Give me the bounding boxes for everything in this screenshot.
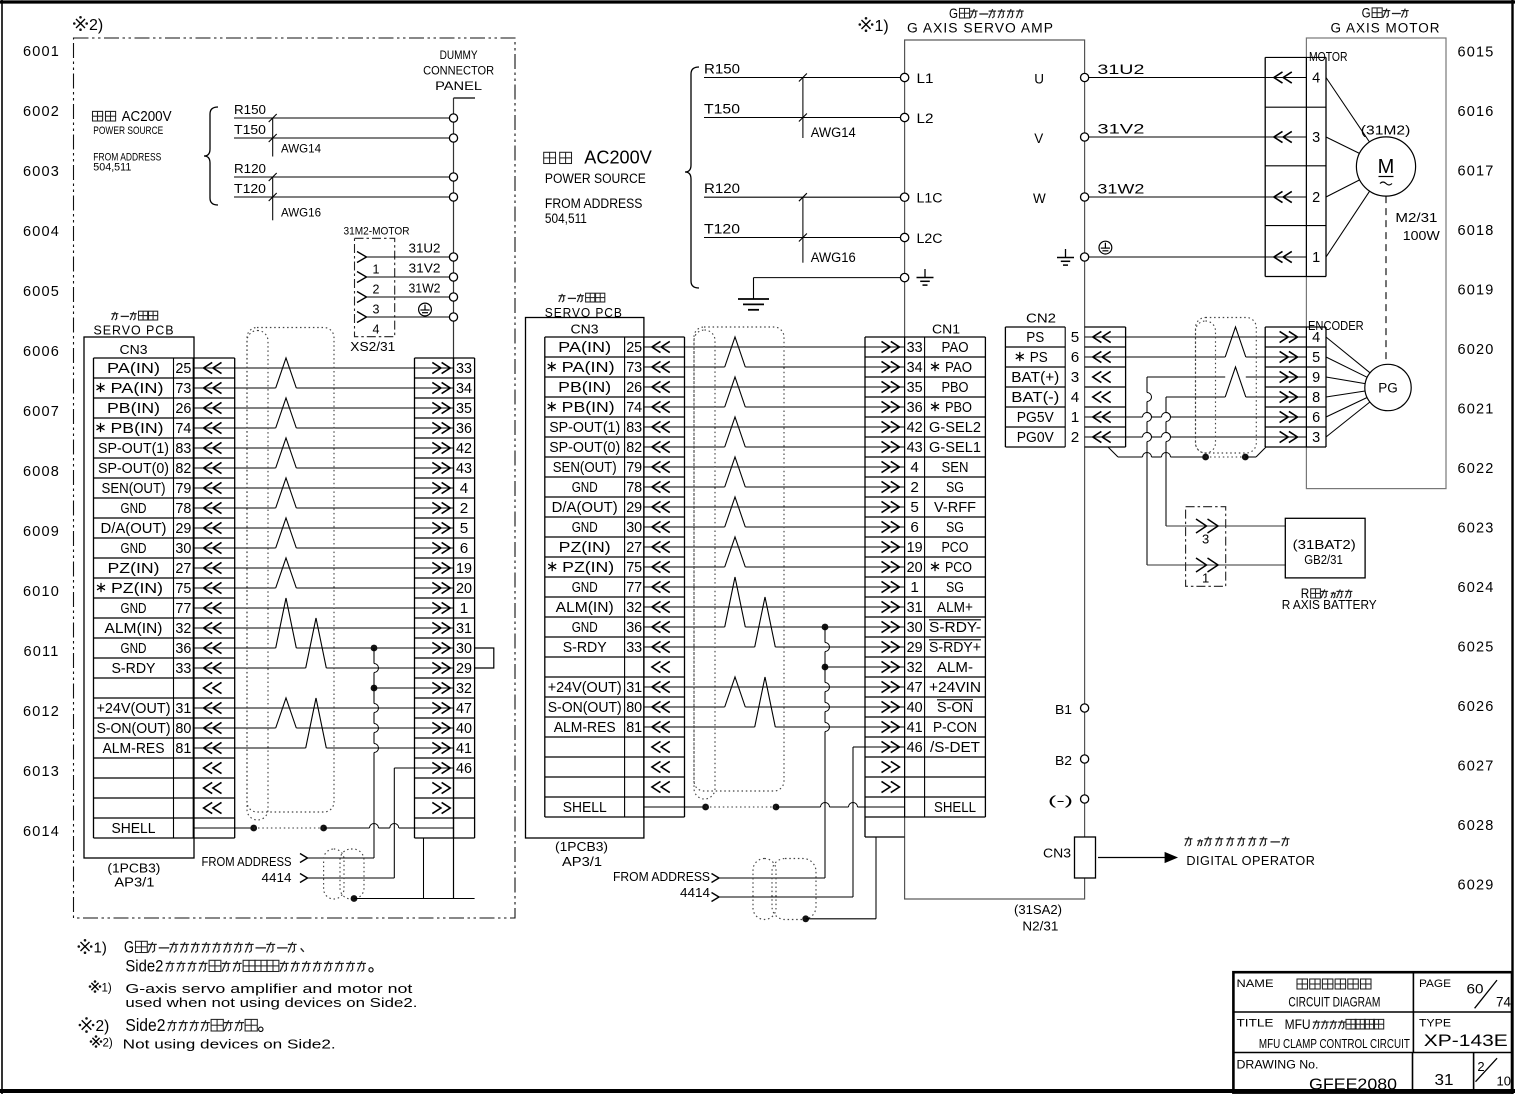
- svg-text:19: 19: [456, 561, 472, 577]
- svg-text:79: 79: [175, 481, 191, 497]
- wire row 3: [235, 407, 415, 409]
- wire row 12 with twisted-pair mark: [235, 587, 276, 589]
- svg-text:81: 81: [175, 741, 191, 757]
- svg-text:4: 4: [1312, 330, 1320, 346]
- svg-text:ALM-RES: ALM-RES: [554, 720, 616, 736]
- svg-text:5: 5: [460, 521, 469, 537]
- servo PCB board outline (left): [84, 337, 194, 858]
- svg-text:DIGITAL OPERATOR: DIGITAL OPERATOR: [1186, 853, 1315, 868]
- svg-text:1: 1: [1312, 250, 1320, 266]
- svg-text:6008: 6008: [23, 464, 60, 480]
- svg-text:6022: 6022: [1457, 461, 1494, 477]
- svg-text:60: 60: [1467, 982, 1484, 997]
- svg-text:6028: 6028: [1457, 818, 1494, 834]
- vertical junction wire A to FROM ADDRESS 4414: [824, 627, 826, 643]
- svg-text:D/A(OUT): D/A(OUT): [552, 500, 618, 516]
- svg-text:PCO: PCO: [945, 560, 972, 576]
- svg-text:PBO: PBO: [945, 400, 972, 416]
- svg-text:2: 2: [1071, 430, 1080, 446]
- svg-text:AP3/1: AP3/1: [562, 855, 602, 869]
- XS2/31 pin 3 wire to panel: [357, 292, 367, 303]
- wire row 8 with twisted-pair mark: [235, 507, 276, 509]
- svg-text:31W2: 31W2: [1097, 182, 1144, 197]
- svg-text:XS2/31: XS2/31: [350, 340, 395, 354]
- svg-text:CIRCUIT DIAGRAM: CIRCUIT DIAGRAM: [1288, 994, 1380, 1010]
- svg-text:82: 82: [626, 440, 642, 456]
- svg-text:PAO: PAO: [942, 340, 969, 356]
- svg-text:36: 36: [626, 620, 642, 636]
- svg-text:+24VIN: +24VIN: [929, 680, 981, 696]
- svg-text:GND: GND: [121, 541, 147, 557]
- svg-text:PB(IN): PB(IN): [562, 400, 615, 416]
- wire row 18 (+24V): [685, 686, 866, 688]
- svg-text:G: G: [124, 938, 134, 957]
- svg-text:19: 19: [907, 540, 923, 556]
- svg-text:AWG14: AWG14: [811, 125, 856, 140]
- svg-text:PB(IN): PB(IN): [558, 380, 611, 396]
- svg-text:R120: R120: [234, 162, 266, 176]
- XS2/31 pin 2 wire to panel: [357, 272, 367, 283]
- svg-text:26: 26: [626, 380, 642, 396]
- svg-text:46: 46: [907, 740, 923, 756]
- wire row 9: [685, 506, 866, 508]
- wire row 7: [685, 466, 866, 468]
- svg-text:504,511: 504,511: [545, 211, 587, 226]
- svg-text:6007: 6007: [23, 404, 60, 420]
- wire BAT(+) riser to encoder 9 with twisted mark: [1147, 376, 1225, 378]
- svg-text:PZ(IN): PZ(IN): [111, 581, 163, 597]
- svg-text:31: 31: [456, 621, 472, 637]
- svg-text:G-SEL1: G-SEL1: [929, 440, 981, 456]
- shield ovals around FROM ADDRESS wires (middle): [753, 859, 776, 920]
- svg-text:10: 10: [1497, 1073, 1512, 1088]
- wire BAT(-) riser to encoder 8: [1166, 396, 1225, 398]
- wire row 21 (/S-DET) from vertical: [393, 768, 395, 878]
- svg-text:SG: SG: [946, 520, 964, 536]
- svg-text:S-RDY-: S-RDY-: [929, 620, 981, 636]
- svg-text:83: 83: [626, 420, 642, 436]
- wire gauge AWG16 (middle): [802, 197, 804, 263]
- battery box (31BAT2) GB2/31: [1285, 518, 1365, 578]
- brace for power source (left): [204, 107, 218, 205]
- svg-text:PA(IN): PA(IN): [111, 381, 164, 397]
- svg-text:GFEE2080: GFEE2080: [1309, 1077, 1397, 1094]
- svg-text:SERVO PCB: SERVO PCB: [94, 323, 175, 338]
- svg-text:1: 1: [373, 263, 380, 277]
- wire row 8 with twisted-pair mark: [685, 486, 725, 488]
- wire row 4 with twisted-pair mark: [235, 427, 276, 429]
- svg-text:AWG16: AWG16: [281, 206, 321, 220]
- dummy panel terminals for power wires: [449, 114, 457, 122]
- svg-text:29: 29: [626, 500, 642, 516]
- svg-text:ALM-RES: ALM-RES: [103, 741, 165, 757]
- svg-text:6002: 6002: [23, 104, 60, 120]
- svg-text:3: 3: [1312, 430, 1320, 446]
- wire row 2 with twisted-pair mark: [235, 387, 276, 389]
- svg-text:9: 9: [1312, 370, 1320, 386]
- wire row 11: [685, 546, 866, 548]
- cable shield (dotted) around twisted pairs: [247, 328, 334, 813]
- svg-text:31M2-MOTOR: 31M2-MOTOR: [344, 226, 410, 238]
- svg-text:6012: 6012: [23, 704, 60, 720]
- svg-text:AWG14: AWG14: [281, 142, 321, 156]
- svg-text:36: 36: [907, 400, 923, 416]
- svg-text:PANEL: PANEL: [435, 79, 482, 93]
- svg-text:77: 77: [626, 580, 642, 596]
- battery connector pin 3 wire: [1166, 525, 1285, 527]
- wire row 10 with twisted-pair mark: [685, 526, 725, 528]
- svg-text:6024: 6024: [1457, 580, 1494, 596]
- svg-text:S-RDY: S-RDY: [563, 640, 607, 656]
- svg-text:PG0V: PG0V: [1017, 430, 1054, 446]
- svg-text:35: 35: [456, 401, 472, 417]
- svg-text:PA(IN): PA(IN): [107, 361, 160, 377]
- svg-text:+24V(OUT): +24V(OUT): [548, 680, 622, 696]
- svg-text:PS: PS: [1026, 330, 1044, 346]
- svg-text:6: 6: [910, 520, 919, 536]
- shield ovals around FROM ADDRESS wires (left): [324, 849, 344, 899]
- svg-text:Side2: Side2: [125, 1016, 165, 1035]
- wire row 5: [685, 426, 866, 428]
- svg-text:82: 82: [175, 461, 191, 477]
- svg-text:ALM+: ALM+: [937, 600, 973, 616]
- svg-text:29: 29: [907, 640, 923, 656]
- svg-text:4: 4: [460, 481, 469, 497]
- svg-text:G-SEL2: G-SEL2: [929, 420, 981, 436]
- svg-text:PZ(IN): PZ(IN): [562, 560, 614, 576]
- svg-text:25: 25: [626, 340, 642, 356]
- svg-text:73: 73: [175, 381, 191, 397]
- svg-text:2: 2: [373, 283, 380, 297]
- dashed shaft link motor to encoder: [1385, 196, 1387, 364]
- svg-text:G AXIS MOTOR: G AXIS MOTOR: [1331, 21, 1441, 36]
- svg-text:D/A(OUT): D/A(OUT): [101, 521, 167, 537]
- svg-text:PZ(IN): PZ(IN): [559, 540, 611, 556]
- svg-text:V-RFF: V-RFF: [934, 500, 976, 516]
- dummy connector panel bus line: [454, 97, 476, 99]
- svg-text:GND: GND: [572, 520, 598, 536]
- svg-text:79: 79: [626, 460, 642, 476]
- amp ground terminal wire to motor: [1065, 249, 1067, 258]
- svg-text:SG: SG: [946, 580, 964, 596]
- middle servo PCB CN3 pin table: [545, 336, 685, 338]
- svg-text:U: U: [1034, 72, 1044, 87]
- vertical junction wire A to FROM ADDRESS 4414: [373, 648, 375, 664]
- ground wire to amp ground terminal: [754, 277, 901, 279]
- wire row 20 (ALM-RES) with twisted mark: [235, 747, 306, 749]
- svg-text:SP-OUT(0): SP-OUT(0): [98, 461, 169, 477]
- svg-text:1): 1): [102, 983, 112, 995]
- svg-text:40: 40: [456, 721, 472, 737]
- svg-text:1): 1): [94, 940, 107, 957]
- shell wire row 24: [685, 806, 706, 808]
- svg-text:6004: 6004: [23, 224, 60, 240]
- svg-text:(1PCB3): (1PCB3): [107, 862, 160, 876]
- svg-text:80: 80: [175, 721, 191, 737]
- svg-text:GND: GND: [572, 580, 598, 596]
- svg-text:S-RDY: S-RDY: [112, 661, 156, 677]
- svg-text:NAME: NAME: [1237, 978, 1274, 990]
- svg-text:FROM ADDRESS: FROM ADDRESS: [613, 870, 710, 884]
- svg-text:34: 34: [907, 360, 923, 376]
- svg-text:4: 4: [1071, 390, 1080, 406]
- chassis ground mark at amp terminal: [924, 269, 926, 278]
- svg-text:FROM ADDRESS: FROM ADDRESS: [545, 196, 643, 211]
- svg-text:SP-OUT(1): SP-OUT(1): [98, 441, 169, 457]
- note mark *1) for servo amp: [862, 20, 871, 29]
- svg-text:GB2/31: GB2/31: [1304, 552, 1343, 567]
- svg-text:27: 27: [175, 561, 191, 577]
- svg-text:TYPE: TYPE: [1419, 1018, 1451, 1030]
- wire gauge AWG14 (middle): [802, 78, 804, 139]
- svg-text:CN3: CN3: [120, 342, 148, 357]
- svg-text:ALM-: ALM-: [937, 660, 973, 676]
- wire row 18 (+24V): [235, 707, 415, 709]
- svg-text:R150: R150: [234, 103, 266, 117]
- svg-text:PCO: PCO: [942, 540, 969, 556]
- battery connector pin 1 wire: [1147, 564, 1285, 566]
- svg-text:36: 36: [175, 641, 191, 657]
- svg-text:SHELL: SHELL: [563, 800, 607, 816]
- svg-text:L2: L2: [917, 111, 934, 126]
- svg-text:S-ON: S-ON: [937, 700, 973, 716]
- svg-text:2: 2: [1477, 1059, 1484, 1074]
- svg-text:PAGE: PAGE: [1419, 978, 1451, 990]
- svg-text:R150: R150: [704, 62, 740, 77]
- svg-text:80: 80: [626, 700, 642, 716]
- svg-text:81: 81: [626, 720, 642, 736]
- svg-text:6: 6: [1071, 350, 1080, 366]
- svg-text:31: 31: [1435, 1072, 1454, 1089]
- wire row 15 (to S-RDY-) with junction: [685, 626, 725, 628]
- svg-text:6: 6: [460, 541, 469, 557]
- svg-text:1: 1: [1202, 571, 1209, 586]
- svg-text:29: 29: [175, 521, 191, 537]
- svg-text:DRAWING No.: DRAWING No.: [1237, 1058, 1319, 1072]
- terminal L1C: [900, 193, 908, 201]
- svg-text:6011: 6011: [24, 644, 60, 660]
- svg-text:T120: T120: [234, 182, 266, 196]
- battery feed vertical from BAT(-): [1165, 397, 1167, 413]
- svg-text:SHELL: SHELL: [934, 800, 976, 816]
- svg-text:47: 47: [456, 701, 472, 717]
- wire row 19 (S-ON) with twisted mark: [685, 706, 725, 708]
- dash-dot enclosure of optional Side2 devices: [74, 38, 516, 918]
- svg-text:33: 33: [175, 661, 191, 677]
- svg-text:20: 20: [907, 560, 923, 576]
- svg-text:6005: 6005: [23, 284, 60, 300]
- servo PCB board outline (middle): [526, 318, 644, 839]
- svg-text:AC200V: AC200V: [584, 147, 652, 168]
- wire row 6 with twisted-pair mark: [235, 467, 276, 469]
- terminal L1: [900, 73, 908, 81]
- svg-text:27: 27: [626, 540, 642, 556]
- svg-text:6016: 6016: [1457, 104, 1494, 120]
- encoder PG circle: [1365, 364, 1411, 410]
- svg-text:33: 33: [626, 640, 642, 656]
- svg-text:30: 30: [456, 641, 472, 657]
- svg-text:4414: 4414: [262, 871, 292, 885]
- svg-text:4414: 4414: [680, 886, 710, 900]
- svg-text:2: 2: [460, 501, 469, 517]
- shield drain to CN1 shell (middle): [802, 915, 809, 922]
- svg-text:100W: 100W: [1403, 228, 1441, 243]
- svg-text:25: 25: [175, 361, 191, 377]
- svg-text:3: 3: [1071, 370, 1080, 386]
- wire row 7: [235, 487, 415, 489]
- svg-text:used when not using devices on: used when not using devices on Side2.: [125, 996, 417, 1010]
- svg-text:32: 32: [907, 660, 923, 676]
- svg-text:PB(IN): PB(IN): [111, 421, 164, 437]
- svg-text:M: M: [1378, 156, 1395, 178]
- svg-text:(31M2): (31M2): [1361, 123, 1411, 138]
- wire row 17 (ALM-) from junction: [371, 685, 378, 692]
- svg-text:6029: 6029: [1457, 878, 1494, 894]
- wire row 14: [685, 606, 866, 608]
- svg-text:31: 31: [907, 600, 923, 616]
- protective earth symbol on wire 4 (left): [419, 303, 432, 316]
- wire row 12 with twisted-pair mark: [685, 566, 725, 568]
- svg-text:2: 2: [910, 480, 919, 496]
- svg-text:3: 3: [1202, 532, 1209, 547]
- svg-text:SEN(OUT): SEN(OUT): [553, 460, 617, 476]
- encoder fan-out wires: [1326, 337, 1370, 373]
- svg-text:2): 2): [89, 17, 103, 34]
- svg-text:PS: PS: [1030, 350, 1048, 366]
- svg-text:5: 5: [1071, 330, 1080, 346]
- svg-text:BAT(-): BAT(-): [1011, 390, 1059, 406]
- wire row 20 (ALM-RES) with twisted mark: [685, 726, 755, 728]
- svg-text:6025: 6025: [1457, 640, 1494, 656]
- svg-text:31V2: 31V2: [1097, 122, 1144, 137]
- svg-text:S-RDY+: S-RDY+: [929, 640, 981, 656]
- svg-text:TITLE: TITLE: [1237, 1018, 1274, 1030]
- svg-text:30: 30: [175, 541, 191, 557]
- svg-text:SP-OUT(0): SP-OUT(0): [549, 440, 620, 456]
- svg-text:32: 32: [456, 681, 472, 697]
- svg-text:31: 31: [175, 701, 191, 717]
- note mark *2) for left enclosure: [76, 19, 85, 28]
- svg-text:BAT(+): BAT(+): [1011, 370, 1059, 386]
- svg-text:6015: 6015: [1457, 45, 1494, 61]
- svg-text:L1: L1: [917, 71, 934, 86]
- XS2/31 pin 4 wire to panel: [357, 312, 367, 323]
- brace for power source (middle): [685, 67, 699, 288]
- encoder shield drain wire: [1108, 447, 1118, 457]
- svg-text:P-CON: P-CON: [933, 720, 977, 736]
- svg-text:30: 30: [626, 520, 642, 536]
- svg-text:31V2: 31V2: [409, 262, 441, 276]
- svg-text:31U2: 31U2: [409, 242, 441, 256]
- wire row 16 (S-RDY): [685, 646, 755, 648]
- svg-text:34: 34: [456, 381, 472, 397]
- svg-text:AC200V: AC200V: [122, 109, 172, 125]
- svg-text:46: 46: [456, 761, 472, 777]
- wire row 21 (/S-DET) from vertical: [852, 747, 854, 897]
- svg-text:2: 2: [1312, 190, 1320, 206]
- battery connector (dash-dot): [1186, 507, 1226, 587]
- svg-text:6013: 6013: [23, 764, 60, 780]
- wire row 3: [685, 386, 866, 388]
- svg-text:(1PCB3): (1PCB3): [555, 840, 608, 854]
- svg-text:40: 40: [907, 700, 923, 716]
- svg-text:S-ON(OUT): S-ON(OUT): [97, 721, 171, 737]
- svg-text:32: 32: [175, 621, 191, 637]
- svg-text:GND: GND: [572, 620, 598, 636]
- svg-text:74: 74: [1496, 995, 1511, 1010]
- svg-text:PAO: PAO: [945, 360, 972, 376]
- svg-text:PZ(IN): PZ(IN): [108, 561, 160, 577]
- svg-text:6009: 6009: [23, 524, 60, 540]
- svg-text:B2: B2: [1055, 753, 1072, 768]
- wire gauge AWG14 (left): [272, 118, 274, 157]
- note *2 Japanese: [82, 1020, 92, 1030]
- svg-text:6006: 6006: [23, 344, 60, 360]
- power source label AC200V (middle): [544, 152, 556, 163]
- wire row 2 with twisted-pair mark: [685, 366, 725, 368]
- svg-text:S-ON(OUT): S-ON(OUT): [548, 700, 622, 716]
- svg-text:77: 77: [175, 601, 191, 617]
- svg-text:6021: 6021: [1457, 402, 1494, 418]
- svg-text:1: 1: [460, 601, 469, 617]
- svg-text:30: 30: [907, 620, 923, 636]
- svg-text:R AXIS BATTERY: R AXIS BATTERY: [1282, 598, 1378, 612]
- svg-text:T150: T150: [234, 123, 266, 137]
- svg-text:6014: 6014: [23, 824, 60, 840]
- wire row 1: [235, 367, 415, 369]
- svg-text:47: 47: [907, 680, 923, 696]
- svg-text:L2C: L2C: [917, 231, 943, 246]
- svg-text:(31SA2): (31SA2): [1014, 903, 1062, 917]
- cable shield (dotted) around twisted pairs: [694, 327, 784, 791]
- svg-text:78: 78: [626, 480, 642, 496]
- svg-text:GND: GND: [121, 501, 147, 517]
- XS2/31 pin 1 wire to panel: [357, 252, 367, 263]
- svg-text:Side2: Side2: [125, 957, 163, 976]
- svg-text:ALM(IN): ALM(IN): [556, 600, 614, 616]
- wire row 9: [235, 527, 415, 529]
- svg-text:SP-OUT(1): SP-OUT(1): [549, 420, 620, 436]
- ground symbol (power input): [753, 278, 755, 299]
- svg-text:POWER SOURCE: POWER SOURCE: [545, 171, 646, 186]
- svg-text:GND: GND: [572, 480, 598, 496]
- svg-text:V: V: [1034, 131, 1043, 146]
- wire CN2 PG5V to encoder 6: [1126, 416, 1143, 418]
- svg-text:CN2: CN2: [1026, 311, 1056, 326]
- svg-text:T150: T150: [704, 102, 740, 117]
- wire row 16 (S-RDY): [235, 667, 306, 669]
- encoder cable shield (dotted): [1196, 318, 1257, 454]
- svg-text:4: 4: [910, 460, 919, 476]
- wire row 11: [235, 567, 415, 569]
- svg-text:6019: 6019: [1457, 283, 1494, 299]
- battery feed vertical from BAT(+): [1146, 377, 1148, 393]
- title block frame: [1233, 972, 1512, 1092]
- wire CN2 PS to encoder 4: [1126, 336, 1307, 338]
- svg-text:CONNECTOR: CONNECTOR: [423, 64, 494, 78]
- shield drain junction (left): [351, 895, 358, 902]
- svg-text:6026: 6026: [1457, 699, 1494, 715]
- svg-text:MFU CLAMP CONTROL CIRCUIT: MFU CLAMP CONTROL CIRCUIT: [1259, 1036, 1410, 1051]
- servo PCB label (middle): [559, 294, 563, 302]
- svg-text:SEN(OUT): SEN(OUT): [102, 481, 166, 497]
- svg-text:FROM ADDRESS: FROM ADDRESS: [202, 855, 292, 869]
- svg-text:2): 2): [96, 1018, 110, 1035]
- svg-text:20: 20: [456, 581, 472, 597]
- svg-text:G-axis servo amplifier and mot: G-axis servo amplifier and motor not: [125, 982, 413, 996]
- svg-text:35: 35: [907, 380, 923, 396]
- wire row 6 with twisted-pair mark: [685, 446, 725, 448]
